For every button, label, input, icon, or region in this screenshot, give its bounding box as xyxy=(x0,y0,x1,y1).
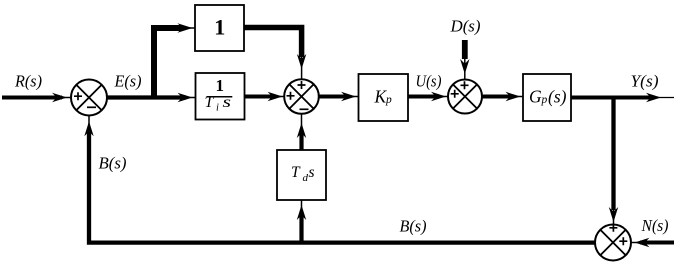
svg-text:s: s xyxy=(223,94,232,111)
svg-text:B(s): B(s) xyxy=(99,154,127,173)
svg-text:s: s xyxy=(309,164,315,181)
svg-text:E(s): E(s) xyxy=(114,72,142,91)
svg-text:R(s): R(s) xyxy=(14,72,42,91)
svg-text:G: G xyxy=(529,86,542,106)
svg-text:1: 1 xyxy=(216,76,225,95)
svg-text:1: 1 xyxy=(214,14,225,39)
svg-text:D(s): D(s) xyxy=(450,17,481,36)
svg-text:i: i xyxy=(216,102,219,113)
svg-text:B(s): B(s) xyxy=(400,217,427,236)
svg-text:(s): (s) xyxy=(548,86,567,106)
svg-text:p: p xyxy=(541,94,548,106)
svg-text:p: p xyxy=(385,94,392,106)
svg-text:U(s): U(s) xyxy=(416,72,442,91)
svg-text:Y(s): Y(s) xyxy=(631,72,659,91)
svg-text:T: T xyxy=(291,164,301,181)
svg-text:T: T xyxy=(205,94,215,111)
svg-text:N(s): N(s) xyxy=(641,216,669,235)
